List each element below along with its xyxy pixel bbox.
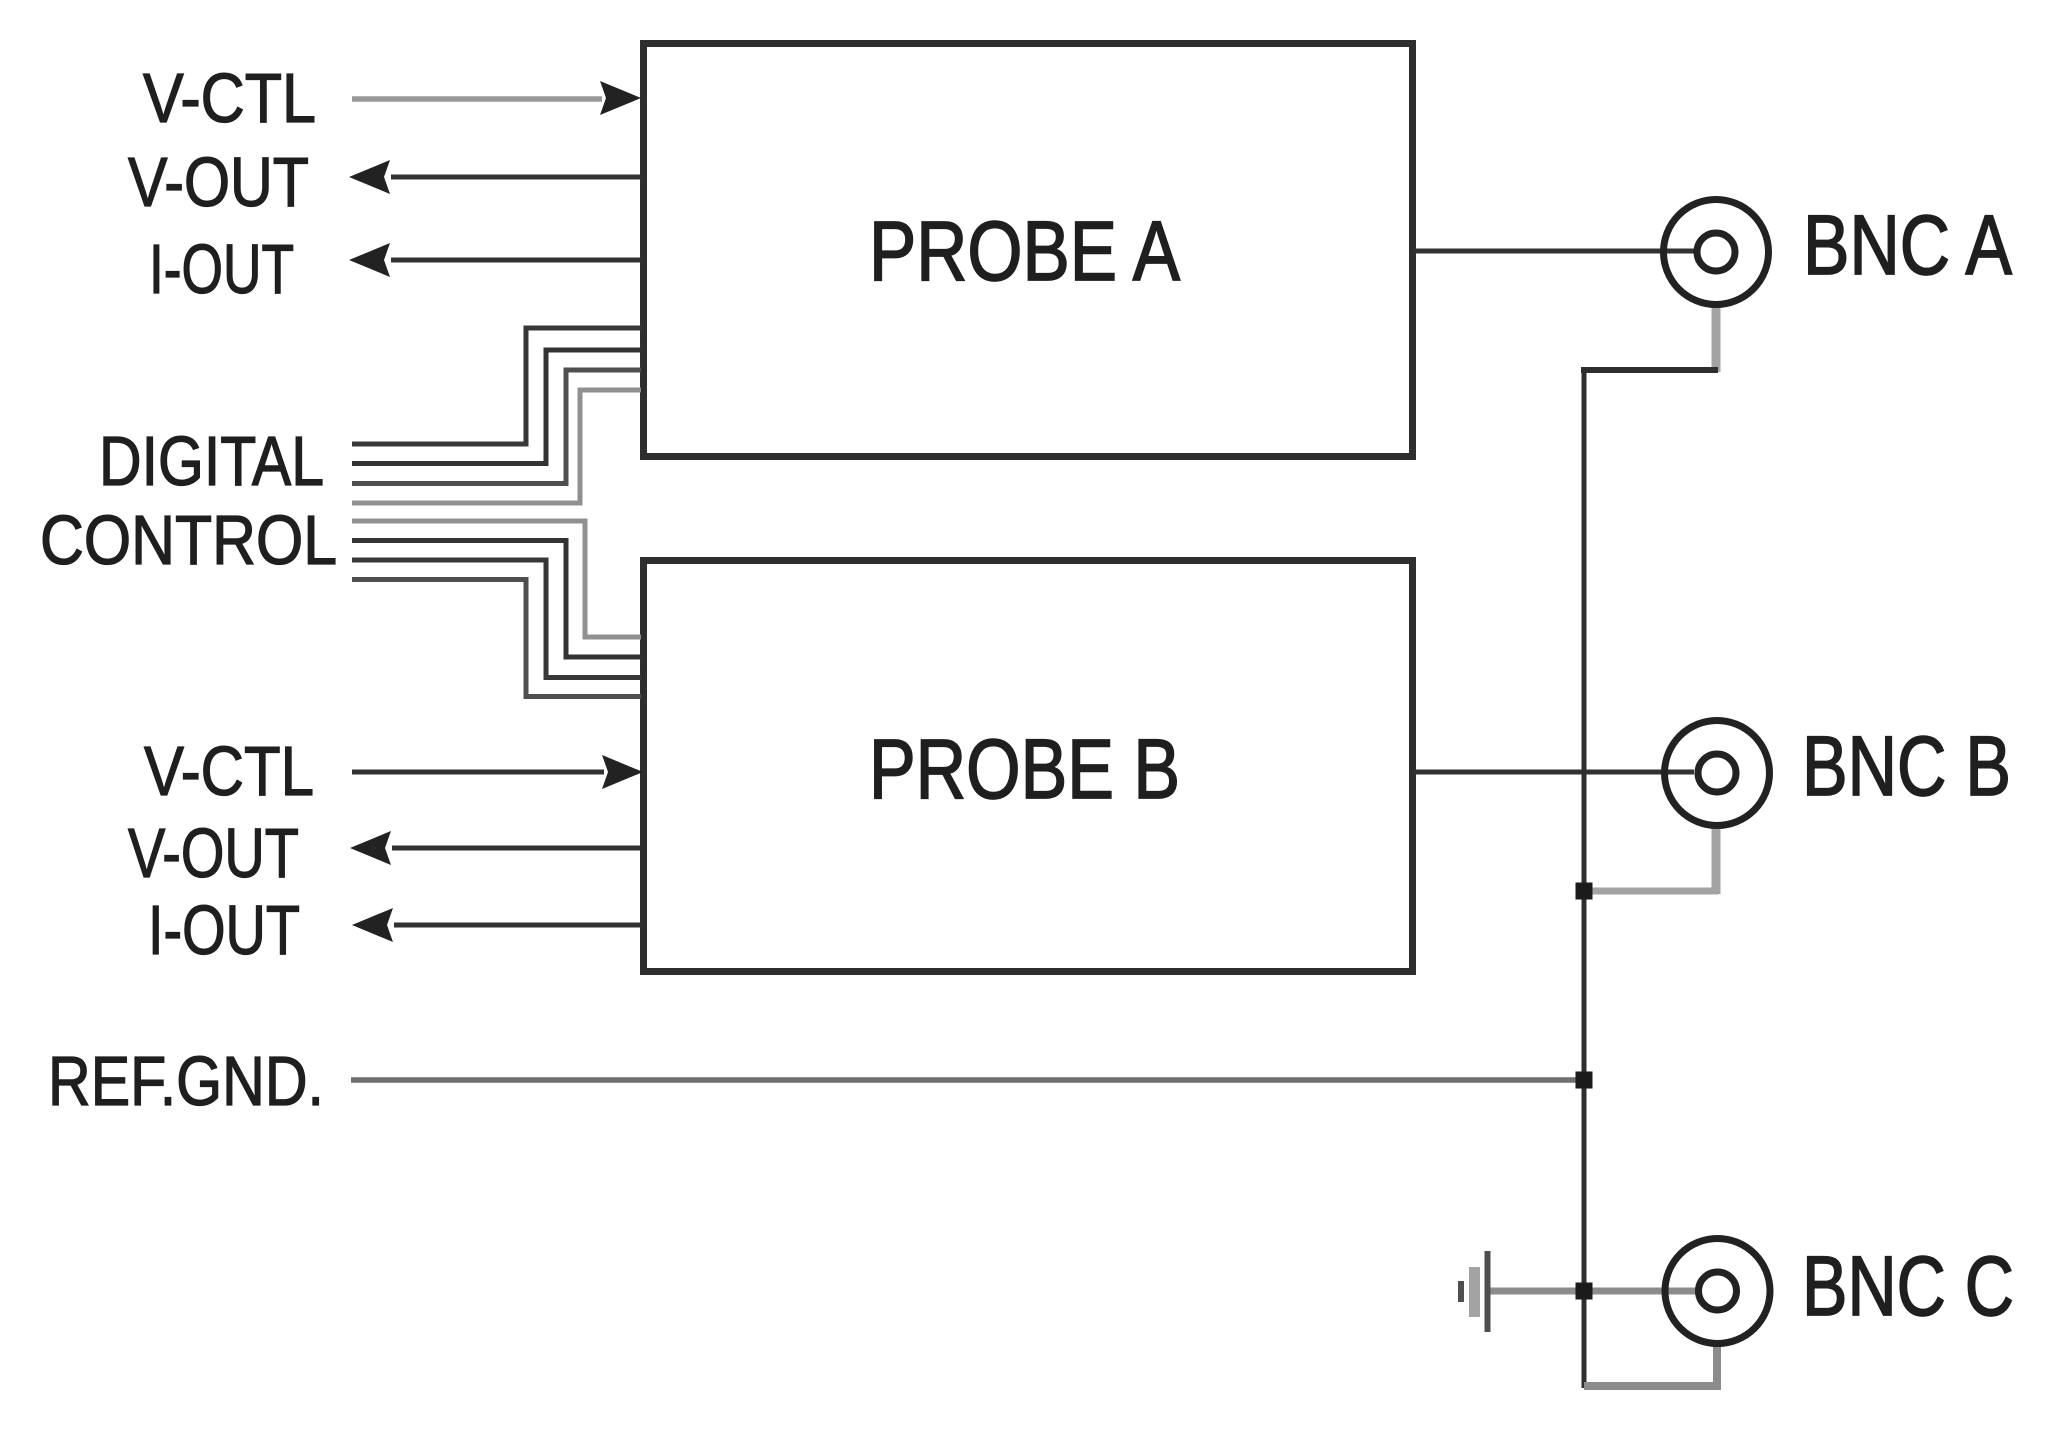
wire V-CTL input to PROBE B (352, 770, 604, 775)
bus wire 7 (to PROBE B) (352, 560, 641, 678)
arrowhead V-CTL A (600, 81, 641, 115)
svg-text:I-OUT: I-OUT (149, 230, 294, 308)
svg-text:DIGITAL: DIGITAL (99, 422, 324, 500)
svg-text:BNC B: BNC B (1802, 719, 2011, 813)
bus wire 3 (to PROBE A) (352, 370, 641, 484)
svg-text:BNC A: BNC A (1803, 198, 2012, 292)
bus wire 6 (to PROBE B) (352, 541, 641, 658)
bus wire 5 (to PROBE B) (352, 521, 641, 637)
wire V-OUT from PROBE B (392, 846, 641, 851)
wire BNC B shield to ground bus (1584, 888, 1718, 895)
wire REF.GND. (351, 1077, 1584, 1083)
wire I-OUT from PROBE B (394, 923, 641, 928)
arrowhead I-OUT A (349, 243, 390, 277)
wire ground bus to BNC C shield (1584, 1343, 1717, 1386)
arrowhead V-CTL B (602, 755, 643, 789)
wire PROBE A output to BNC A (1413, 249, 1694, 254)
connector BNC A (1664, 200, 1769, 305)
svg-text:REF.GND.: REF.GND. (48, 1042, 324, 1120)
junction BNC B ground (1576, 883, 1593, 900)
bus wire 4 (to PROBE A) (352, 390, 641, 503)
bus wire 2 (to PROBE A) (352, 350, 641, 464)
svg-text:V-CTL: V-CTL (143, 59, 316, 137)
svg-text:PROBE B: PROBE B (869, 722, 1180, 816)
wire PROBE B output to BNC B (1413, 770, 1694, 775)
svg-text:PROBE A: PROBE A (869, 204, 1180, 298)
wire BNC A shield stub (1712, 306, 1721, 372)
svg-text:V-CTL: V-CTL (144, 732, 314, 810)
block PROBE A (644, 44, 1413, 457)
block PROBE B (644, 561, 1413, 972)
bus wire 8 (to PROBE B) (352, 580, 641, 697)
svg-text:BNC C: BNC C (1802, 1239, 2014, 1333)
wire BNC B shield stub (1712, 829, 1721, 894)
connector BNC B (1665, 721, 1770, 826)
wire BNC A shield to ground bus (1581, 367, 1718, 373)
connector BNC C (1665, 1239, 1770, 1344)
arrowhead V-OUT B (350, 831, 391, 865)
wire ground symbol to BNC C (1490, 1288, 1697, 1295)
junction REF.GND. (1576, 1072, 1593, 1089)
arrowhead I-OUT B (352, 908, 393, 942)
svg-text:CONTROL: CONTROL (40, 501, 337, 579)
bus wire 1 (to PROBE A) (352, 328, 641, 444)
ground symbol (1458, 1251, 1491, 1332)
svg-text:V-OUT: V-OUT (128, 143, 309, 221)
arrowhead V-OUT A (349, 160, 390, 194)
wire V-OUT from PROBE A (391, 175, 641, 180)
svg-text:V-OUT: V-OUT (128, 814, 299, 892)
wire V-CTL input to PROBE A (352, 96, 602, 102)
junction BNC C center conductor (1576, 1283, 1593, 1300)
wire I-OUT from PROBE A (391, 258, 641, 263)
ground bus vertical (1582, 367, 1587, 1388)
svg-text:I-OUT: I-OUT (148, 891, 300, 969)
